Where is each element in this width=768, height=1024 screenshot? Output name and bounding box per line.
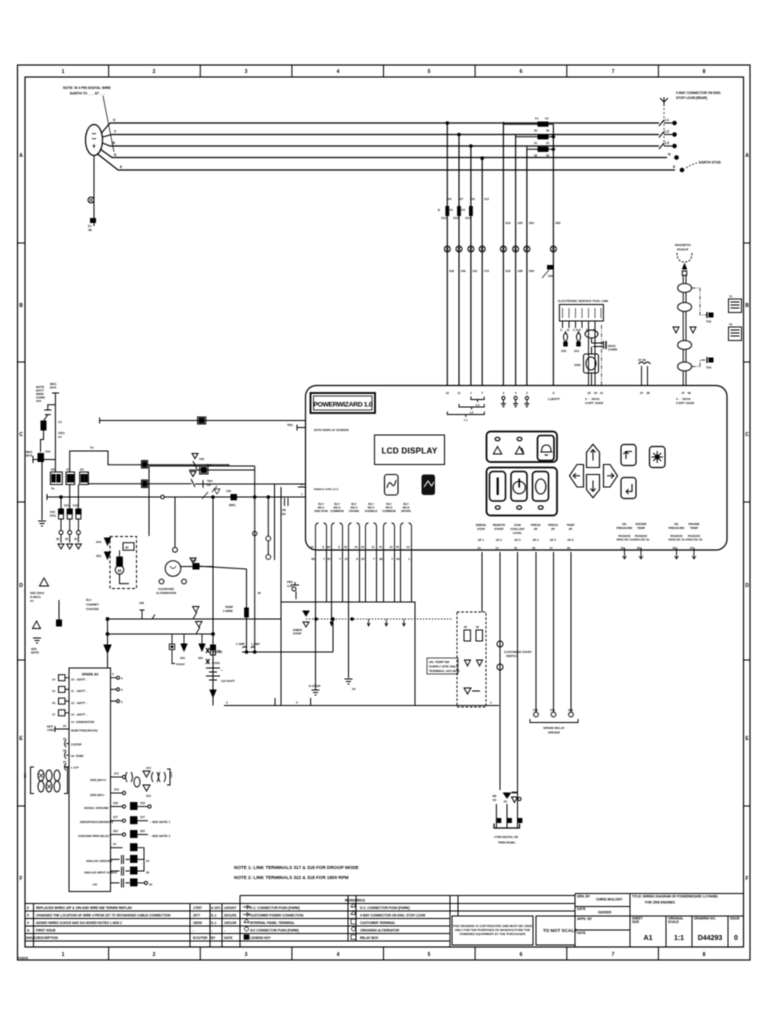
EST shield dash-dot <box>601 325 603 386</box>
svg-text:40: 40 <box>74 537 78 541</box>
terminal L3 <box>659 141 676 149</box>
battery feed wire <box>212 497 214 706</box>
hitemp pin <box>63 749 84 759</box>
horizontal wire to pin 6 <box>149 466 306 560</box>
svg-text:L2: L2 <box>665 130 669 134</box>
svg-text:C: C <box>745 432 749 438</box>
wire tag 135 <box>226 489 237 507</box>
svg-text:305: 305 <box>198 656 203 660</box>
wire drop 1 <box>446 122 449 386</box>
svg-text:16009: 16009 <box>193 921 202 925</box>
branch wire with splice 13 <box>189 469 255 471</box>
charging alternator wire <box>173 497 178 552</box>
svg-text:84: 84 <box>396 557 400 561</box>
svg-text:BUS: BUS <box>50 386 56 390</box>
svg-text:10: 10 <box>354 545 358 549</box>
wire temp to emer line <box>332 619 334 652</box>
crank sensor square <box>169 634 184 666</box>
grouping brace 3 <box>447 412 484 423</box>
svg-text:HI. TEMP: HI. TEMP <box>71 754 84 758</box>
svg-text:A7: A7 <box>30 599 34 603</box>
shield dash-dot run upper <box>692 288 707 315</box>
svg-text:33: 33 <box>587 391 591 395</box>
generator G1 <box>86 125 103 156</box>
svg-text:DATE: DATE <box>577 931 585 935</box>
magnetic pickup label <box>675 243 692 252</box>
starter cable arrows <box>96 538 111 559</box>
connector pair drop <box>266 496 271 560</box>
svg-text:E: E <box>120 165 122 169</box>
svg-text:5: 5 <box>428 69 431 75</box>
svg-text:42: 42 <box>672 546 676 550</box>
nav arrow left <box>570 465 584 488</box>
svg-text:←SEE NOTE 2: ←SEE NOTE 2 <box>149 834 171 838</box>
svg-text:ANALOG INPUT 4/20mA: ANALOG INPUT 4/20mA <box>84 871 118 875</box>
relay output drop wires <box>316 552 412 602</box>
fuse link cool <box>206 659 221 665</box>
svg-text:13: 13 <box>71 713 75 717</box>
svg-text:STOP: STOP <box>293 632 301 636</box>
bus phase labels <box>112 118 122 169</box>
batt label pin 9 <box>548 397 560 401</box>
svg-text:RLY: RLY <box>86 598 92 602</box>
svg-text:B2: B2 <box>282 512 286 516</box>
svg-text:NOTE: NOTE <box>31 651 39 655</box>
svg-text:34: 34 <box>149 882 153 886</box>
svg-text:battery volts (+/-): battery volts (+/-) <box>314 487 338 491</box>
fused tap row 2 <box>516 134 554 145</box>
spare relay driver bracket <box>530 719 578 735</box>
grid ticks bottom <box>109 947 659 960</box>
svg-text:D44293: D44293 <box>698 935 723 942</box>
svg-text:ELECTRONIC SERVICE TOOL LINK: ELECTRONIC SERVICE TOOL LINK <box>558 299 609 303</box>
svg-text:A 10%: A 10% <box>211 906 221 910</box>
svg-text:1D: 1D <box>493 798 497 802</box>
remarks symbol glyphs <box>243 903 356 939</box>
svg-text:TO NOT SCALE: TO NOT SCALE <box>543 928 577 933</box>
svg-text:←SEE NOTE 1: ←SEE NOTE 1 <box>149 820 171 824</box>
fuse link crank <box>206 648 223 654</box>
svg-text:ECO/TDR: ECO/TDR <box>193 936 208 940</box>
neg bus terminal <box>48 382 59 472</box>
svg-text:TEMP: TEMP <box>690 526 698 530</box>
wire drop 3 <box>470 145 473 386</box>
svg-text:D.J.: D.J. <box>211 914 217 918</box>
warning triangle left column <box>31 621 41 655</box>
grid column numbers bottom <box>62 952 706 958</box>
svg-text:C: C <box>19 432 23 438</box>
svg-text:107: 107 <box>458 197 463 201</box>
svg-text:1 AMP: 1 AMP <box>251 642 260 646</box>
svg-text:T1: T1 <box>729 295 733 299</box>
svg-text:15A: 15A <box>45 450 51 454</box>
svg-text:230: 230 <box>518 221 523 225</box>
svg-text:218: 218 <box>505 269 510 273</box>
svg-text:30/11/06: 30/11/06 <box>224 914 236 918</box>
svg-text:SUPPLY SITE ONLY: SUPPLY SITE ONLY <box>429 665 459 669</box>
svg-text:40C: 40C <box>96 554 102 558</box>
svg-text:303: 303 <box>180 656 185 660</box>
svg-text:0: 0 <box>734 935 738 942</box>
temp sender fuse <box>223 605 248 617</box>
svg-text:7a: 7a <box>90 446 94 450</box>
step wire 2 <box>88 472 191 484</box>
warning triangle 2 <box>515 447 523 455</box>
alarm ack bell button <box>538 436 555 461</box>
terminal cluster bottom left <box>23 767 68 794</box>
svg-text:PRESSURE: PRESSURE <box>669 526 685 530</box>
svg-text:INJECTION [RACK]: INJECTION [RACK] <box>71 729 98 733</box>
relay drops to fuse row <box>61 485 78 510</box>
chassis symbol pin 4 <box>513 396 518 407</box>
svg-text:14: 14 <box>71 720 75 724</box>
svg-text:219: 219 <box>505 221 510 225</box>
link terminal 15A <box>26 450 55 464</box>
svg-text:7: 7 <box>612 69 615 75</box>
pushbutton PB1 <box>287 580 299 599</box>
svg-text:F2: F2 <box>461 208 465 212</box>
svg-text:TEMP: TEMP <box>637 526 645 530</box>
svg-text:15: 15 <box>52 689 56 693</box>
svg-text:F22: F22 <box>73 504 78 508</box>
splice 13 <box>200 466 208 474</box>
svg-text:27: 27 <box>690 546 694 550</box>
svg-text:7: 7 <box>612 952 615 958</box>
coil bump 1 <box>678 284 692 293</box>
spare box left pins <box>52 675 69 717</box>
banana plug 2 <box>574 331 581 353</box>
alarm cluster box <box>487 432 558 463</box>
svg-text:[5A]: [5A] <box>50 514 56 518</box>
svg-text:370: 370 <box>114 788 119 792</box>
data link stub <box>287 423 306 431</box>
border frame inner <box>25 77 744 947</box>
battery BT1 <box>206 668 235 697</box>
svg-text:A: A <box>19 153 23 159</box>
panel bottom pin numbers right <box>477 546 693 550</box>
svg-text:LEGEND KEY: LEGEND KEY <box>250 936 272 940</box>
emergency stop symbol <box>293 611 309 636</box>
svg-text:F: F <box>19 876 22 882</box>
warning triangle 1 <box>493 447 501 455</box>
gen link row 1 <box>90 766 173 791</box>
svg-text:2: 2 <box>153 69 156 75</box>
relay K1 <box>50 468 62 491</box>
svg-text:ANALOG 1b: ANALOG 1b <box>668 538 685 542</box>
svg-text:[BK]: [BK] <box>229 503 235 507</box>
svg-text:F1: F1 <box>449 208 453 212</box>
splice on upper wire <box>198 417 206 424</box>
svg-text:12: 12 <box>71 701 75 705</box>
svg-text:SCALE: SCALE <box>668 920 679 924</box>
svg-text:ISSUE: ISSUE <box>730 917 740 921</box>
relay K3 <box>80 468 89 485</box>
svg-text:374: 374 <box>146 766 151 770</box>
svg-text:A: A <box>745 153 749 159</box>
CAN label <box>585 397 603 405</box>
svg-text:GENERATOR: GENERATOR <box>76 720 95 724</box>
svg-text:16: 16 <box>532 546 536 550</box>
run button <box>490 472 506 502</box>
svg-text:86: 86 <box>379 557 383 561</box>
svg-text:26: 26 <box>637 546 641 550</box>
svg-text:2077: 2077 <box>193 914 200 918</box>
EST pin letters <box>560 328 596 332</box>
left column wire <box>57 600 62 626</box>
svg-text:7a: 7a <box>51 487 55 491</box>
panel top pin numbers <box>446 391 691 395</box>
circuit breaker CB1 <box>41 410 66 452</box>
generator earth connector <box>88 197 96 232</box>
svg-text:31: 31 <box>546 141 550 145</box>
svg-text:I/P 1: I/P 1 <box>478 538 484 542</box>
svg-text:2301: 2301 <box>574 363 581 367</box>
svg-text:5: 5 <box>27 914 29 918</box>
svg-text:K6: K6 <box>51 468 55 472</box>
fuse FS3 <box>73 504 81 520</box>
svg-text:37 38: 37 38 <box>638 358 646 362</box>
svg-text:B: B <box>19 303 23 309</box>
svg-text:LCD DISPLAY: LCD DISPLAY <box>381 447 437 456</box>
svg-text:-: - <box>211 929 212 933</box>
oil temp note box <box>427 658 460 674</box>
svg-text:32: 32 <box>546 154 550 158</box>
gen link row 2 <box>90 788 151 799</box>
svg-text:C/STOP: C/STOP <box>71 743 82 747</box>
svg-text:30: 30 <box>327 545 331 549</box>
svg-text:47: 47 <box>681 391 685 395</box>
svg-text:GEN [2K4-4: GEN [2K4-4 <box>90 778 106 782</box>
svg-text:F: F <box>745 876 748 882</box>
svg-text:15A: 15A <box>441 216 447 220</box>
svg-text:13: 13 <box>406 545 410 549</box>
svg-text:DRN. BY: DRN. BY <box>577 895 591 899</box>
svg-text:A7: A7 <box>58 435 62 439</box>
svg-text:6: 6 <box>520 952 523 958</box>
svg-text:702: 702 <box>706 320 711 324</box>
spare box inner labels <box>71 678 95 725</box>
svg-text:CHANGED THE LOCATION OF WIRE 4: CHANGED THE LOCATION OF WIRE 4 FROM 23T … <box>36 914 171 918</box>
right edge terminal box 1 <box>729 295 742 313</box>
stop button <box>511 472 527 502</box>
svg-text:I/P: I/P <box>551 527 555 531</box>
svg-text:REPLACED WIRES 15P & 15N AND W: REPLACED WIRES 15P & 15N AND WIRE 68E TE… <box>36 906 133 910</box>
svg-text:87: 87 <box>361 557 365 561</box>
svg-text:36: 36 <box>125 546 129 550</box>
svg-text:W: W <box>112 141 115 145</box>
svg-text:D.C. CONNECTOR PUSH [FARM]: D.C. CONNECTOR PUSH [FARM] <box>250 906 300 910</box>
svg-text:B: B <box>745 303 749 309</box>
wire drop 7 <box>526 149 528 385</box>
enter key <box>621 478 636 499</box>
svg-text:12: 12 <box>446 391 450 395</box>
feed arrow 303 <box>180 634 187 660</box>
svg-text:26: 26 <box>146 871 150 875</box>
svg-text:10: 10 <box>477 546 481 550</box>
svg-text:24V: 24V <box>36 399 41 403</box>
wire drop 6 <box>515 137 517 386</box>
svg-text:W: W <box>464 625 467 629</box>
svg-text:4 WAY CONNECTOR ON ENG.: 4 WAY CONNECTOR ON ENG. <box>676 91 721 95</box>
svg-text:INTERNAL PANEL TERMINAL: INTERNAL PANEL TERMINAL <box>250 921 295 925</box>
svg-text:1500/1800 RPM SELECT: 1500/1800 RPM SELECT <box>78 834 111 838</box>
svg-text:CRANK: CRANK <box>212 650 223 654</box>
svg-text:ADDED WIRES 314/315 AND 314 AD: ADDED WIRES 314/315 AND 314 ADDED NOTES … <box>36 921 122 925</box>
grouping brace 1 <box>471 397 484 408</box>
svg-text:F1: F1 <box>535 117 539 121</box>
inline fuses 1amp <box>236 642 333 653</box>
svg-text:37: 37 <box>640 391 644 395</box>
EST pins <box>563 321 596 386</box>
svg-text:104: 104 <box>446 197 451 201</box>
svg-text:41: 41 <box>600 391 604 395</box>
svg-text:2: 2 <box>226 701 228 705</box>
svg-text:DRIVER: DRIVER <box>548 731 560 735</box>
left edge vertical wire <box>38 460 46 526</box>
svg-text:EARTH STUD: EARTH STUD <box>699 161 721 165</box>
svg-text:4: 4 <box>27 921 29 925</box>
svg-text:L.O.P: L.O.P <box>71 766 79 770</box>
svg-text:CUSTOMER TERMINAL: CUSTOMER TERMINAL <box>360 921 396 925</box>
alarm LED 2 <box>517 437 522 440</box>
svg-text:DATE: DATE <box>577 907 585 911</box>
leader line from note <box>103 96 114 152</box>
svg-text:CHASSIS: CHASSIS <box>86 607 99 611</box>
svg-text:A/C CONNECTOR PUSH [FARM]: A/C CONNECTOR PUSH [FARM] <box>250 929 299 933</box>
svg-text:14: 14 <box>495 546 499 550</box>
terminal E earth stud <box>673 161 721 172</box>
svg-text:15E: 15E <box>199 457 204 461</box>
magnetic pickup MPU <box>677 253 692 275</box>
svg-text:42: 42 <box>344 545 348 549</box>
svg-text:31: 31 <box>534 141 538 145</box>
sender label right <box>676 397 694 405</box>
svg-text:DROOP/ISOCHRONOUS: DROOP/ISOCHRONOUS <box>80 820 113 824</box>
disclaimer text <box>453 924 533 936</box>
svg-text:19: 19 <box>620 546 624 550</box>
svg-text:+5V: +5V <box>92 882 97 886</box>
svg-text:318: 318 <box>140 801 145 805</box>
svg-text:10: 10 <box>71 678 75 682</box>
svg-text:703: 703 <box>706 366 711 370</box>
cluster LEDs <box>495 506 543 509</box>
fused tap row 3 <box>527 146 554 158</box>
svg-text:15A: 15A <box>453 216 459 220</box>
svg-text:DATA DISPLAY SCREEN: DATA DISPLAY SCREEN <box>314 428 349 432</box>
svg-text:200: 200 <box>561 349 566 353</box>
svg-text:15: 15 <box>514 546 518 550</box>
svg-text:4: 4 <box>337 952 340 958</box>
svg-text:F2: F2 <box>545 117 549 121</box>
relay interface box <box>224 487 499 706</box>
starter motor dashed box <box>110 537 137 589</box>
svg-text:CABINET: CABINET <box>86 603 99 607</box>
svg-text:T2: T2 <box>729 323 733 327</box>
drn by block <box>575 894 744 948</box>
svg-text:11: 11 <box>371 545 374 549</box>
svg-text:I/P 2: I/P 2 <box>496 538 502 542</box>
svg-text:C D E: C D E <box>573 328 581 332</box>
svg-text:START: START <box>494 527 504 531</box>
title block values <box>644 935 739 942</box>
svg-text:112: 112 <box>472 269 477 273</box>
svg-text:11: 11 <box>71 689 74 693</box>
grid ticks right <box>744 243 751 806</box>
svg-text:322: 322 <box>140 829 145 833</box>
AC metering button <box>385 475 399 496</box>
relay K2 <box>66 468 75 485</box>
svg-text:ANALOG 2a: ANALOG 2a <box>633 538 650 542</box>
title block texts <box>577 895 740 936</box>
svg-text:D.J.: D.J. <box>211 921 217 925</box>
svg-text:(+)BATT: (+)BATT <box>548 397 560 401</box>
terminal stub on bus <box>139 601 155 619</box>
svg-text:repro: repro <box>18 955 29 960</box>
shield terminal upper <box>706 312 713 324</box>
sender labels right <box>616 522 702 542</box>
fuse F3 <box>461 197 475 220</box>
grid ticks left <box>18 243 26 806</box>
svg-text:SPARE: SPARE <box>401 509 411 513</box>
svg-text:CART J1939: CART J1939 <box>585 401 603 405</box>
wire drop 8 common fused <box>552 124 554 385</box>
fuse FS2 <box>64 504 72 520</box>
svg-text:I/P 3: I/P 3 <box>515 538 521 542</box>
svg-text:16: 16 <box>52 701 56 705</box>
ground drop from dotted line 1 <box>309 602 320 695</box>
coil bump 3 <box>678 341 692 350</box>
main positive bus wire <box>47 494 306 516</box>
svg-text:F21: F21 <box>64 504 69 508</box>
svg-text:1 AMP: 1 AMP <box>236 642 245 646</box>
rpm select row <box>78 829 171 838</box>
spare input drops <box>518 552 572 828</box>
svg-text:317: 317 <box>113 815 118 819</box>
svg-text:COOL: COOL <box>212 661 221 665</box>
svg-text:108: 108 <box>449 269 454 273</box>
svg-text:14/03/07: 14/03/07 <box>224 906 237 910</box>
nav arrow down <box>587 475 600 498</box>
disclaimer box <box>452 916 533 945</box>
svg-text:I/P: I/P <box>534 527 538 531</box>
wire drop 5 <box>502 124 504 385</box>
wire tag on drop 8 <box>542 265 553 278</box>
svg-text:COMMON: COMMON <box>382 509 396 513</box>
svg-text:27: 27 <box>63 760 67 764</box>
svg-text:D.C. CONNECTOR PUSH [FARM]: D.C. CONNECTOR PUSH [FARM] <box>360 906 410 910</box>
svg-text:NOTE 1: LINK TERMINALS 317 & 3: NOTE 1: LINK TERMINALS 317 & 318 FOR DRO… <box>234 865 359 870</box>
svg-text:C/S: C/S <box>287 584 292 588</box>
temp sender branch <box>246 569 248 652</box>
svg-text:113: 113 <box>484 197 489 201</box>
svg-text:24: 24 <box>146 859 150 863</box>
wire stub pair 2 <box>330 602 333 626</box>
droop link row <box>80 815 171 824</box>
wire bus L1 <box>102 123 660 133</box>
svg-text:45: 45 <box>396 545 400 549</box>
powerwizard nameplate <box>311 393 376 413</box>
customer inputs dashed box <box>457 612 486 707</box>
svg-text:ISSUE: ISSUE <box>26 936 36 940</box>
grid row letters right <box>745 153 749 882</box>
svg-text:371: 371 <box>550 708 555 712</box>
svg-text:318: 318 <box>113 801 118 805</box>
cstop pin <box>63 737 82 747</box>
starter motor M <box>115 566 129 584</box>
svg-text:+BATT→: +BATT→ <box>76 701 88 705</box>
svg-text:CONN: CONN <box>608 348 618 352</box>
spare drop terminals <box>533 708 573 717</box>
